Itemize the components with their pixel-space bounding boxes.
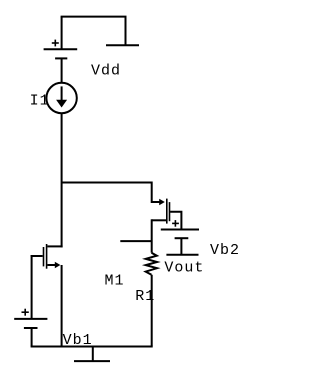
svg-text:Vb1: Vb1 (63, 332, 93, 349)
svg-text:I1: I1 (30, 93, 50, 110)
svg-text:Vb2: Vb2 (210, 242, 240, 259)
svg-text:R1: R1 (135, 288, 155, 305)
svg-text:Vout: Vout (164, 260, 204, 277)
svg-text:Vdd: Vdd (91, 62, 121, 79)
svg-text:M1: M1 (105, 273, 125, 290)
